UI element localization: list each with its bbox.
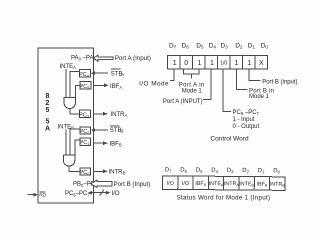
callout wire D3 to PC6-PC7 xyxy=(223,69,231,112)
svg-text:B: B xyxy=(120,129,123,134)
svg-text:D6: D6 xyxy=(182,43,190,50)
svg-text:I/O: I/O xyxy=(167,181,174,187)
latch box PC3 xyxy=(79,110,90,119)
svg-text:2: 2 xyxy=(46,100,50,107)
callout wire D1 to Port B input xyxy=(249,69,260,81)
and-gate A xyxy=(64,98,76,109)
svg-text:D0: D0 xyxy=(261,43,269,50)
wire STBB with arrowhead xyxy=(91,128,108,132)
control word register frame xyxy=(168,55,268,68)
svg-text:PC0: PC0 xyxy=(80,170,91,176)
wire gate B output to PC0 xyxy=(69,166,80,171)
svg-text:I/O Mode: I/O Mode xyxy=(139,81,169,88)
latch box PC5 xyxy=(80,82,91,91)
svg-text:I/O: I/O xyxy=(112,191,120,197)
svg-text:D7: D7 xyxy=(165,167,172,173)
wire gate A output to PC3 xyxy=(70,109,80,114)
wire PC1 to gate B xyxy=(75,140,80,155)
svg-text:PC6–PC7: PC6–PC7 xyxy=(65,191,90,197)
svg-text:I/O: I/O xyxy=(182,181,189,187)
svg-text:PC1: PC1 xyxy=(80,140,91,146)
wire INTEB to gate B xyxy=(65,129,67,155)
svg-text:RD: RD xyxy=(39,193,46,199)
svg-text:Mode 1: Mode 1 xyxy=(182,89,203,95)
svg-text:D6: D6 xyxy=(180,167,187,173)
wire PC4 to gate A xyxy=(70,71,80,97)
callout bracket D6-D5 Port A mode xyxy=(183,69,199,79)
status word bit values xyxy=(167,181,286,188)
control word bit labels D7-D0 xyxy=(169,43,268,50)
svg-text:1: 1 xyxy=(247,60,251,67)
label PC6-PC7 1-Input 0-Output xyxy=(233,110,260,130)
svg-text:1 - Input: 1 - Input xyxy=(233,117,255,123)
svg-text:0 - Output: 0 - Output xyxy=(233,124,260,130)
svg-text:IBFB: IBFB xyxy=(110,141,122,147)
wire PC2 to gate B xyxy=(70,129,80,155)
svg-text:1: 1 xyxy=(198,60,202,67)
svg-text:D2: D2 xyxy=(242,168,249,174)
wire PC5 to gate A xyxy=(75,86,80,98)
svg-text:PC5: PC5 xyxy=(80,84,91,90)
label Port B in Mode 1 xyxy=(249,88,274,100)
svg-text:Port B (Input): Port B (Input) xyxy=(114,181,151,188)
svg-text:INTRB: INTRB xyxy=(109,169,126,175)
svg-text:5: 5 xyxy=(46,107,50,114)
svg-text:1: 1 xyxy=(210,60,214,67)
svg-text:INTEA: INTEA xyxy=(209,181,224,187)
svg-text:PC6 –PC7: PC6 –PC7 xyxy=(233,110,260,116)
svg-text:Status Word for Mode 1 (Input): Status Word for Mode 1 (Input) xyxy=(177,194,271,201)
svg-text:INTEB: INTEB xyxy=(239,181,254,187)
label STBB (overlined) xyxy=(110,126,124,134)
svg-text:Port B (input): Port B (input) xyxy=(262,79,297,85)
and-gate B xyxy=(63,155,75,166)
IC U1 8255A body xyxy=(38,48,94,203)
svg-text:Control Word: Control Word xyxy=(210,136,249,143)
svg-text:Mode 1: Mode 1 xyxy=(249,94,270,100)
svg-text:D7: D7 xyxy=(169,43,177,50)
svg-text:Port A (INPUT): Port A (INPUT) xyxy=(163,99,203,105)
callout wire D4 to Port A (INPUT) xyxy=(203,69,211,100)
svg-text:INTRA: INTRA xyxy=(224,181,240,187)
svg-text:PA0 –PA7: PA0 –PA7 xyxy=(71,55,96,61)
wire PC6-PC7 bidirectional I/O with slash xyxy=(88,190,111,196)
svg-text:Port A in: Port A in xyxy=(179,83,205,89)
svg-text:Port A (Input): Port A (Input) xyxy=(115,55,151,62)
svg-text:PC4: PC4 xyxy=(79,72,90,78)
svg-text:D2: D2 xyxy=(235,43,243,50)
svg-text:D1: D1 xyxy=(248,43,256,50)
svg-text:A: A xyxy=(121,72,124,77)
label RD (overlined) xyxy=(39,192,46,199)
svg-text:D4: D4 xyxy=(209,43,217,50)
svg-text:5: 5 xyxy=(46,119,50,126)
svg-text:PC3: PC3 xyxy=(79,113,90,119)
latch box PC0 xyxy=(80,168,91,176)
svg-text:1: 1 xyxy=(173,60,177,67)
svg-text:IBFB: IBFB xyxy=(256,182,267,188)
callout wire D2 to Port B mode xyxy=(237,69,248,90)
svg-text:INTRB: INTRB xyxy=(270,182,286,188)
control word bit values xyxy=(173,60,264,67)
wire IBFA with arrowhead xyxy=(94,83,109,87)
status word bit labels D7-D0 xyxy=(165,167,281,174)
svg-text:A: A xyxy=(45,126,50,133)
svg-text:X: X xyxy=(259,60,264,67)
wire INTRB with arrowhead xyxy=(94,169,108,173)
label Port A in Mode 1 xyxy=(179,83,205,95)
svg-text:INTEA: INTEA xyxy=(60,64,77,70)
latch box PC2 xyxy=(80,127,91,135)
label 8255A (vertical) xyxy=(45,93,50,133)
wire INTEA to gate A xyxy=(65,69,67,97)
callout wire D7 to I/O Mode xyxy=(170,69,174,81)
svg-text:1/0: 1/0 xyxy=(220,61,227,67)
svg-text:D3: D3 xyxy=(227,168,234,174)
svg-text:1: 1 xyxy=(235,60,239,67)
svg-text:D3: D3 xyxy=(221,43,229,50)
status word register frame xyxy=(162,176,285,191)
wire IBFB with arrowhead xyxy=(94,141,108,145)
svg-text:D0: D0 xyxy=(273,168,280,174)
latch box PC4 xyxy=(79,70,90,79)
svg-text:D4: D4 xyxy=(211,168,218,174)
wire RD input with arrowhead xyxy=(28,193,39,197)
bus arrow Port B xyxy=(91,180,112,187)
svg-text:D5: D5 xyxy=(196,168,203,174)
svg-text:D5: D5 xyxy=(196,43,204,50)
latch box PC1 xyxy=(80,138,91,146)
svg-text:8: 8 xyxy=(46,93,50,100)
wire STBA with arrowhead xyxy=(91,71,108,75)
svg-text:D1: D1 xyxy=(258,168,265,174)
bus arrow Port A xyxy=(94,55,114,62)
wire INTRA with arrowhead xyxy=(94,112,108,116)
svg-text:IBFA: IBFA xyxy=(195,181,206,187)
svg-text:PC2: PC2 xyxy=(80,129,91,135)
svg-text:INTRA: INTRA xyxy=(111,112,128,118)
label STBA (overlined) xyxy=(111,69,125,77)
svg-text:0: 0 xyxy=(184,60,188,67)
svg-text:IBFA: IBFA xyxy=(110,84,122,90)
